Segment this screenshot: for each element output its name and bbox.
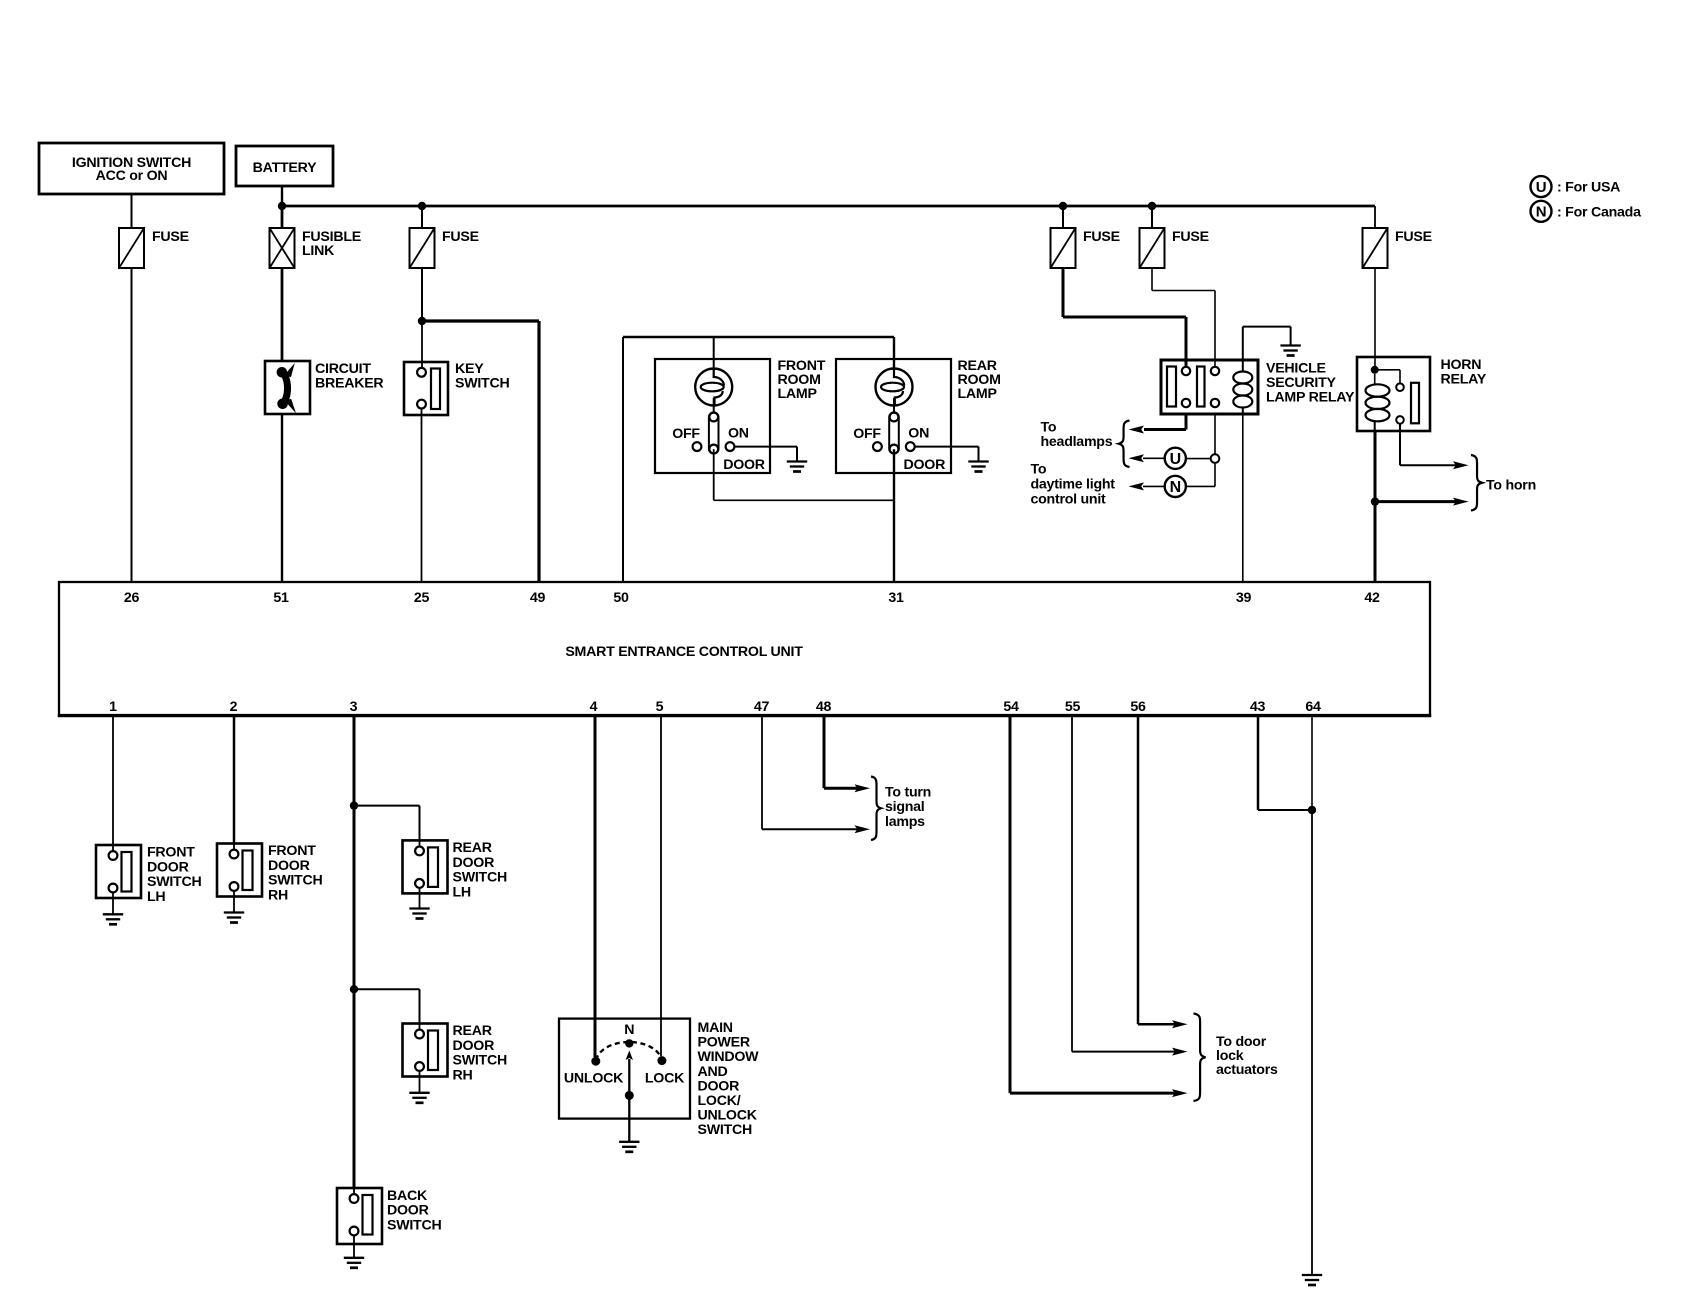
svg-text:REAR: REAR [453, 1023, 492, 1039]
svg-text:daytime light: daytime light [1031, 477, 1116, 493]
svg-text:5: 5 [656, 699, 664, 715]
svg-text:1: 1 [109, 699, 117, 715]
svg-text:LAMP RELAY: LAMP RELAY [1266, 390, 1355, 406]
svg-text:SWITCH: SWITCH [387, 1217, 441, 1233]
svg-text:56: 56 [1130, 699, 1146, 715]
svg-text:DOOR: DOOR [904, 457, 946, 473]
svg-text:2: 2 [230, 699, 238, 715]
svg-text:3: 3 [350, 699, 358, 715]
svg-text:DOOR: DOOR [453, 855, 495, 871]
svg-text:actuators: actuators [1216, 1062, 1278, 1078]
svg-text:To: To [1031, 462, 1047, 478]
svg-text:lamps: lamps [885, 814, 925, 830]
svg-text:ACC or ON: ACC or ON [96, 168, 168, 184]
svg-text:OFF: OFF [853, 426, 881, 442]
svg-text:RH: RH [268, 887, 288, 903]
svg-text:FUSE: FUSE [1395, 229, 1432, 245]
svg-text:REAR: REAR [453, 840, 492, 856]
svg-text:To turn: To turn [885, 784, 931, 800]
svg-text:64: 64 [1305, 699, 1321, 715]
svg-text:48: 48 [816, 699, 832, 715]
svg-text:DOOR: DOOR [698, 1078, 740, 1094]
svg-text:FRONT: FRONT [147, 845, 195, 861]
svg-text:SWITCH: SWITCH [453, 870, 507, 886]
svg-text:25: 25 [414, 590, 430, 606]
svg-text:OFF: OFF [672, 426, 700, 442]
svg-text:signal: signal [885, 799, 925, 815]
svg-text:FUSE: FUSE [152, 229, 189, 245]
svg-text:SWITCH: SWITCH [268, 873, 322, 889]
svg-text:31: 31 [888, 590, 904, 606]
svg-text:headlamps: headlamps [1041, 434, 1113, 450]
svg-text:RH: RH [453, 1067, 473, 1083]
svg-text:26: 26 [124, 590, 140, 606]
svg-text:SMART ENTRANCE CONTROL UNIT: SMART ENTRANCE CONTROL UNIT [565, 644, 803, 660]
svg-text:U: U [1536, 179, 1547, 196]
svg-text:U: U [1170, 451, 1181, 468]
svg-text:DOOR: DOOR [387, 1203, 429, 1219]
svg-text:control unit: control unit [1031, 492, 1107, 508]
svg-text:POWER: POWER [698, 1035, 750, 1051]
svg-text:BATTERY: BATTERY [253, 160, 317, 176]
svg-text:N: N [1170, 479, 1181, 496]
svg-text:MAIN: MAIN [698, 1020, 733, 1036]
svg-text:LAMP: LAMP [958, 386, 997, 402]
svg-text:FUSE: FUSE [1083, 229, 1120, 245]
svg-text:FUSE: FUSE [442, 229, 479, 245]
svg-text:FUSE: FUSE [1172, 229, 1209, 245]
svg-text:51: 51 [273, 590, 289, 606]
svg-text:DOOR: DOOR [268, 858, 310, 874]
svg-text:43: 43 [1250, 699, 1266, 715]
svg-text:BACK: BACK [387, 1188, 428, 1204]
svg-text:SWITCH: SWITCH [455, 376, 509, 392]
svg-text:42: 42 [1364, 590, 1380, 606]
svg-text:FRONT: FRONT [268, 843, 316, 859]
svg-text:LAMP: LAMP [778, 386, 817, 402]
svg-text:N: N [624, 1022, 634, 1038]
svg-text:N: N [1536, 204, 1547, 221]
svg-text:ON: ON [908, 426, 929, 442]
svg-text:39: 39 [1236, 590, 1252, 606]
svg-text:4: 4 [590, 699, 598, 715]
svg-text:UNLOCK: UNLOCK [564, 1071, 624, 1087]
svg-text:55: 55 [1065, 699, 1081, 715]
svg-text:RELAY: RELAY [1441, 372, 1487, 388]
svg-text:54: 54 [1003, 699, 1019, 715]
svg-text:50: 50 [613, 590, 629, 606]
svg-text:AND: AND [698, 1064, 728, 1080]
svg-text:DOOR: DOOR [147, 859, 189, 875]
svg-text:LOCK/: LOCK/ [698, 1093, 741, 1109]
svg-text:SWITCH: SWITCH [147, 874, 201, 890]
svg-text:49: 49 [530, 590, 546, 606]
svg-text:UNLOCK: UNLOCK [698, 1108, 758, 1124]
svg-text:DOOR: DOOR [723, 457, 765, 473]
svg-text:LINK: LINK [302, 243, 335, 259]
svg-text:To horn: To horn [1486, 478, 1536, 494]
svg-text:ON: ON [728, 426, 749, 442]
svg-text:: For Canada: : For Canada [1557, 205, 1641, 221]
svg-text:LH: LH [453, 884, 471, 900]
svg-text:BREAKER: BREAKER [315, 376, 383, 392]
svg-text:LH: LH [147, 889, 165, 905]
svg-text:DOOR: DOOR [453, 1038, 495, 1054]
svg-text:47: 47 [754, 699, 770, 715]
svg-text:WINDOW: WINDOW [698, 1049, 760, 1065]
svg-text:: For USA: : For USA [1557, 180, 1620, 196]
svg-text:SWITCH: SWITCH [698, 1122, 752, 1138]
svg-text:SWITCH: SWITCH [453, 1053, 507, 1069]
svg-text:LOCK: LOCK [645, 1071, 685, 1087]
